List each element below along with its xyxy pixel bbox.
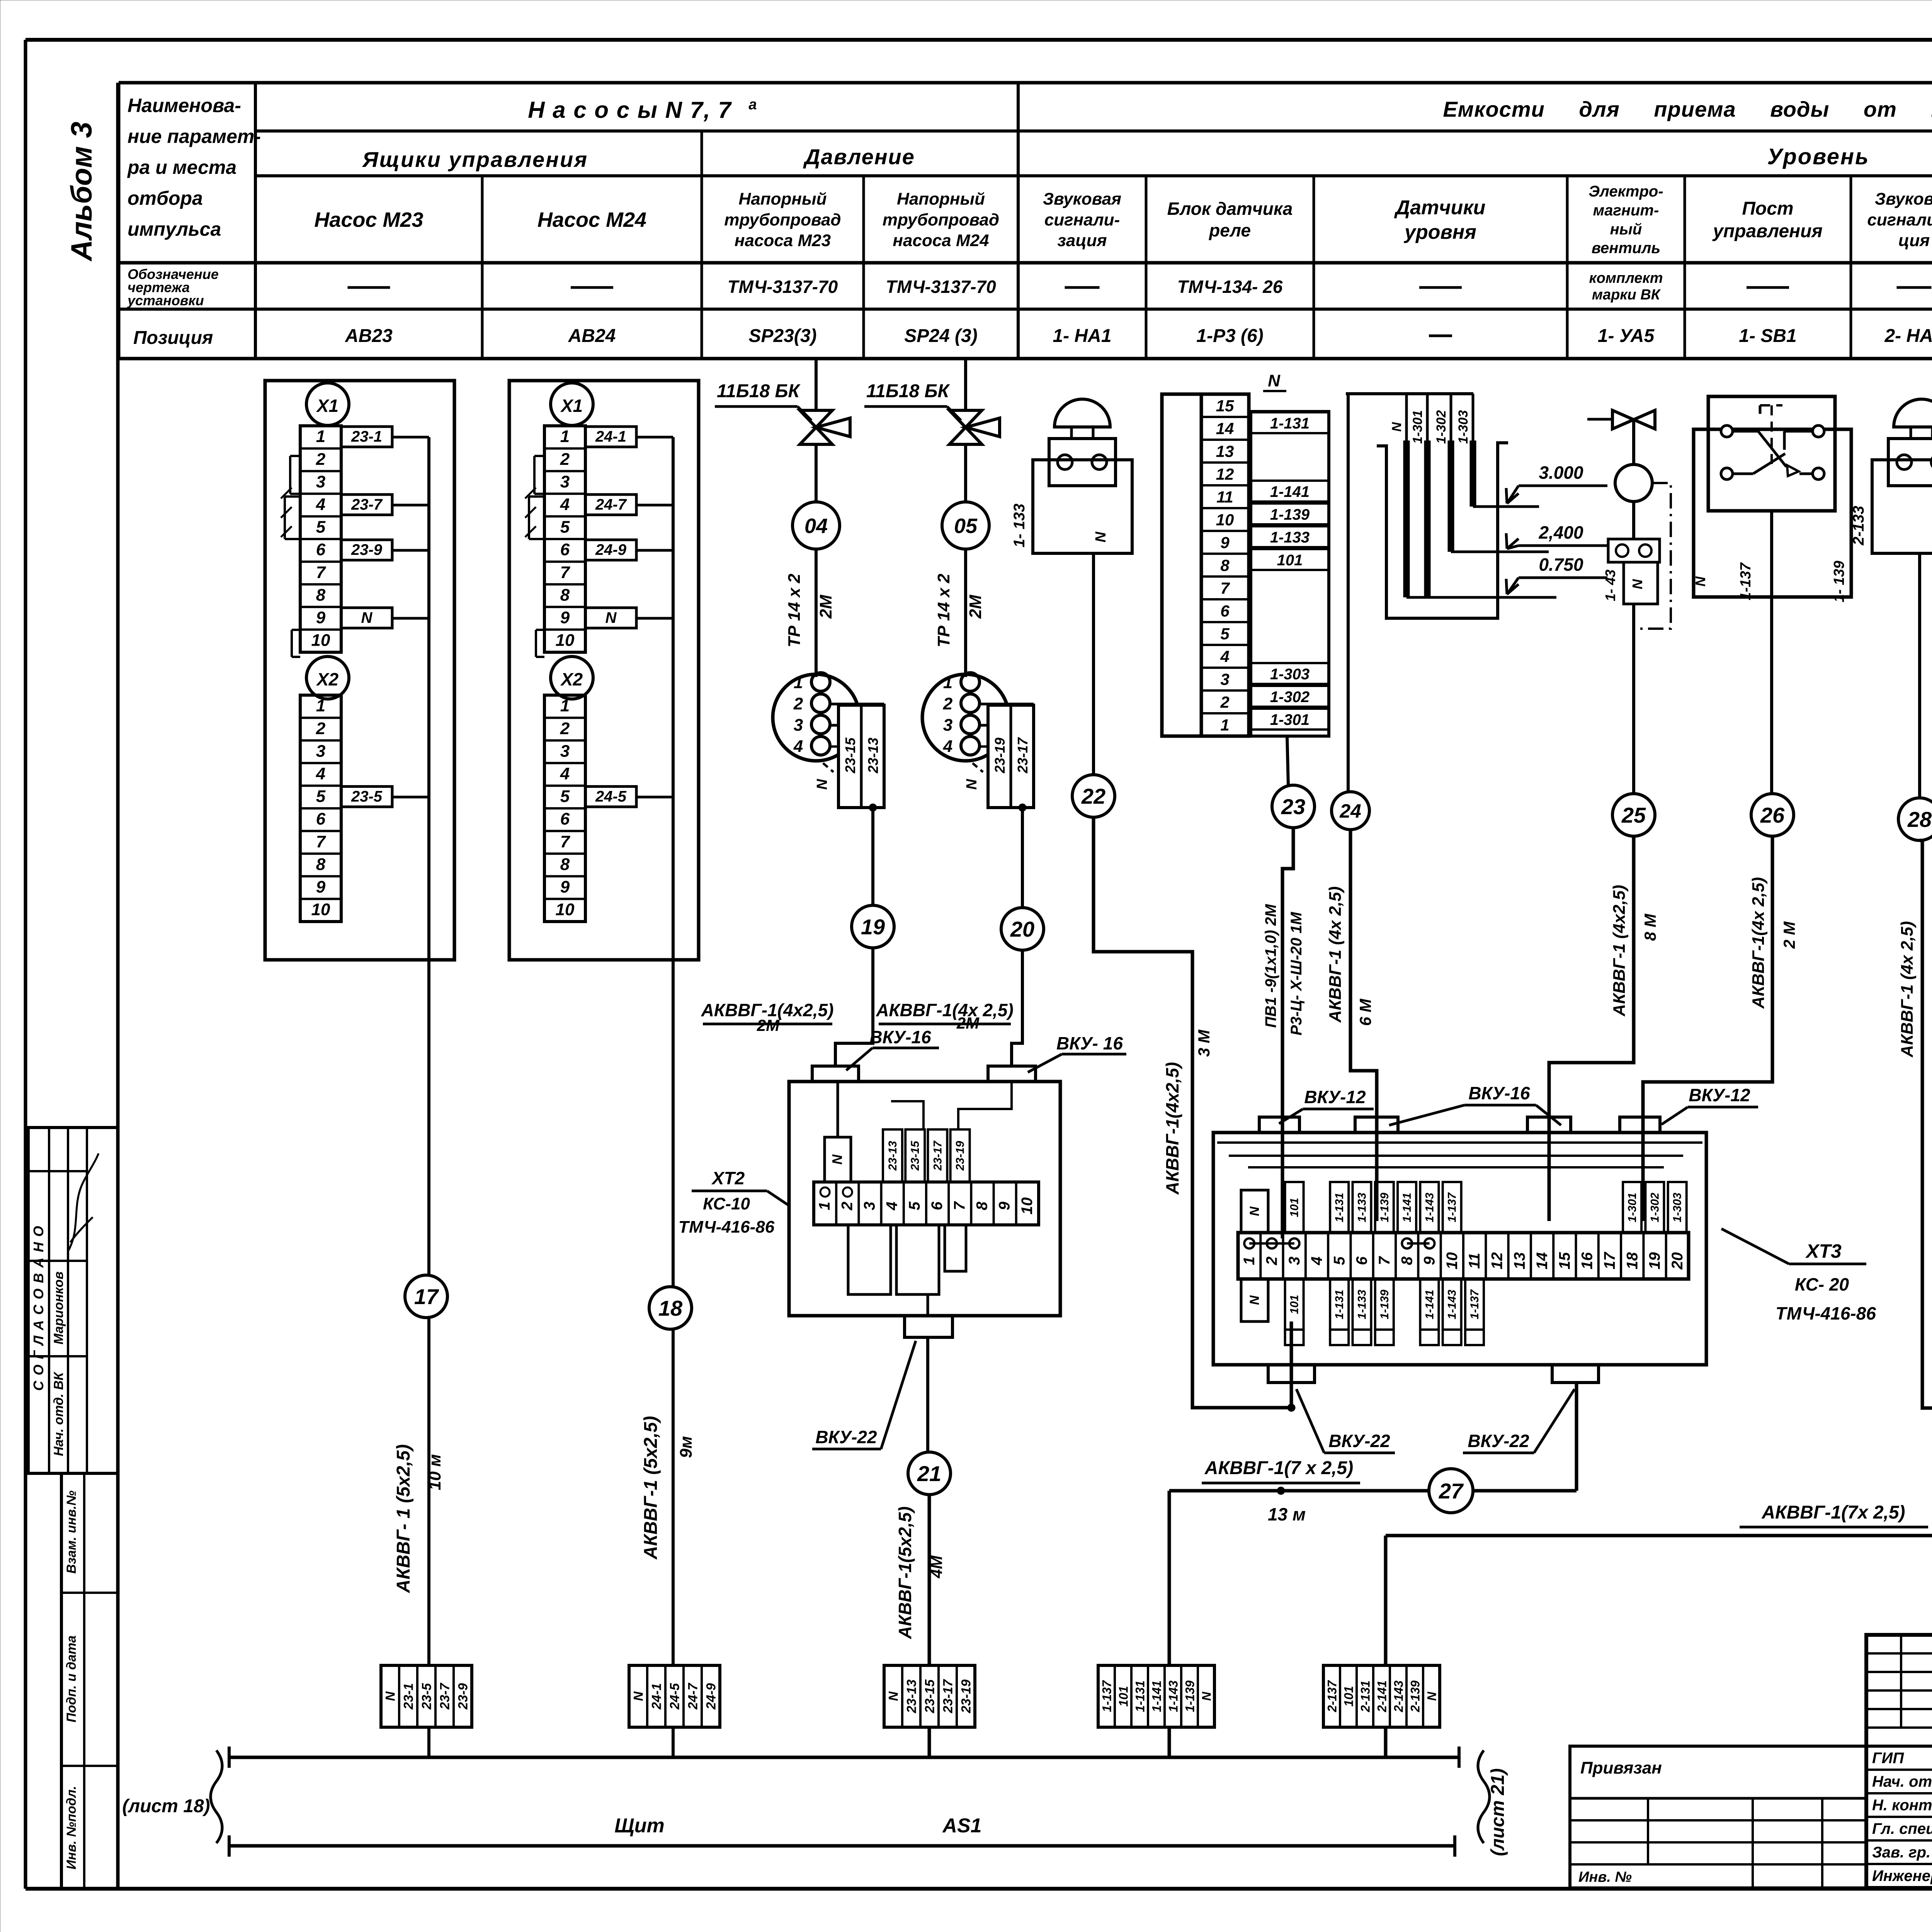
svg-text:5: 5 <box>316 787 326 806</box>
svg-text:101: 101 <box>1342 1686 1356 1706</box>
svg-text:1: 1 <box>1220 716 1229 734</box>
svg-text:23-15: 23-15 <box>923 1679 937 1713</box>
svg-text:1-141: 1-141 <box>1150 1680 1164 1712</box>
svg-text:АКВВГ-1 (4х 2,5): АКВВГ-1 (4х 2,5) <box>1898 921 1917 1058</box>
svg-text:23-13: 23-13 <box>886 1141 899 1171</box>
svg-text:24-5: 24-5 <box>668 1683 682 1710</box>
svg-text:3: 3 <box>316 742 325 760</box>
svg-text:1-143: 1-143 <box>1167 1680 1180 1712</box>
svg-text:АКВВГ-1(7х 2,5): АКВВГ-1(7х 2,5) <box>1761 1502 1905 1523</box>
svg-text:25: 25 <box>1621 803 1646 827</box>
svg-text:24-9: 24-9 <box>595 541 627 558</box>
svg-text:N: N <box>383 1691 398 1701</box>
svg-text:1-131: 1-131 <box>1270 415 1310 432</box>
svg-text:Напорный: Напорный <box>897 190 985 209</box>
svg-text:ция: ция <box>1898 231 1930 250</box>
svg-text:1-131: 1-131 <box>1333 1193 1346 1223</box>
svg-text:1-301: 1-301 <box>1270 711 1310 728</box>
svg-text:5: 5 <box>906 1201 923 1210</box>
svg-text:1-139: 1-139 <box>1270 506 1310 523</box>
svg-text:23-13: 23-13 <box>905 1679 919 1713</box>
svg-text:1-302: 1-302 <box>1648 1192 1661 1222</box>
svg-text:сигнализа-: сигнализа- <box>1867 210 1932 229</box>
svg-text:15: 15 <box>1556 1252 1573 1269</box>
svg-text:1- SB1: 1- SB1 <box>1739 326 1796 346</box>
svg-text:5: 5 <box>560 787 570 806</box>
svg-text:6: 6 <box>560 810 570 828</box>
svg-text:(лист 21): (лист 21) <box>1488 1768 1508 1856</box>
svg-text:1: 1 <box>560 427 570 446</box>
svg-text:9: 9 <box>316 608 326 627</box>
svg-text:9: 9 <box>316 878 326 896</box>
svg-text:9м: 9м <box>677 1436 696 1458</box>
svg-text:3: 3 <box>794 716 803 735</box>
svg-text:17: 17 <box>414 1284 439 1309</box>
svg-text:7: 7 <box>316 832 327 851</box>
svg-text:1- 133: 1- 133 <box>1011 503 1028 547</box>
svg-text:23-19: 23-19 <box>959 1679 974 1713</box>
svg-text:Электро-: Электро- <box>1588 183 1663 200</box>
svg-text:насоса М24: насоса М24 <box>893 231 989 250</box>
svg-text:8: 8 <box>560 855 570 874</box>
svg-text:1-301: 1-301 <box>1626 1193 1639 1223</box>
svg-text:10: 10 <box>311 900 330 919</box>
svg-text:реле: реле <box>1208 220 1251 240</box>
svg-text:X1: X1 <box>316 396 338 416</box>
svg-text:1-303: 1-303 <box>1456 410 1471 444</box>
svg-text:8: 8 <box>1220 556 1230 574</box>
svg-text:3 М: 3 М <box>1929 921 1932 949</box>
svg-text:2М: 2М <box>956 1014 980 1032</box>
svg-text:X2: X2 <box>560 669 583 689</box>
svg-text:0.750: 0.750 <box>1539 554 1583 575</box>
svg-text:магнит-: магнит- <box>1593 202 1659 219</box>
svg-text:ПВ1 -9(1х1,0) 2М: ПВ1 -9(1х1,0) 2М <box>1262 903 1279 1028</box>
svg-text:X1: X1 <box>560 396 583 416</box>
svg-text:4: 4 <box>560 764 570 783</box>
svg-text:5: 5 <box>560 518 570 537</box>
svg-text:2-133: 2-133 <box>1850 506 1867 546</box>
svg-text:АВ23: АВ23 <box>345 326 393 346</box>
svg-text:Блок датчика: Блок датчика <box>1167 199 1293 219</box>
svg-text:КС-10: КС-10 <box>703 1194 750 1213</box>
svg-text:2: 2 <box>316 719 326 738</box>
svg-text:1: 1 <box>560 696 570 715</box>
svg-text:Датчики: Датчики <box>1394 197 1486 219</box>
svg-text:15: 15 <box>1216 396 1234 415</box>
svg-text:1- УА5: 1- УА5 <box>1598 326 1655 346</box>
svg-text:7: 7 <box>951 1201 968 1210</box>
svg-text:1-143: 1-143 <box>1423 1192 1436 1222</box>
svg-text:сигнали-: сигнали- <box>1044 210 1120 229</box>
svg-text:1- 139: 1- 139 <box>1831 561 1847 602</box>
svg-text:19: 19 <box>861 915 885 939</box>
svg-text:11Б18 БК: 11Б18 БК <box>717 381 801 401</box>
svg-text:9: 9 <box>560 878 570 896</box>
svg-text:6: 6 <box>1220 602 1230 620</box>
svg-text:7: 7 <box>1220 579 1230 597</box>
svg-text:ВКУ-12: ВКУ-12 <box>1689 1085 1750 1105</box>
svg-text:13: 13 <box>1216 442 1234 460</box>
svg-text:9: 9 <box>1220 533 1230 551</box>
svg-text:4: 4 <box>560 495 570 514</box>
svg-text:1-302: 1-302 <box>1434 410 1449 444</box>
svg-text:5: 5 <box>316 518 326 537</box>
svg-text:8: 8 <box>560 585 570 604</box>
svg-text:2: 2 <box>560 719 570 738</box>
svg-text:12: 12 <box>1216 465 1234 483</box>
svg-text:6: 6 <box>1354 1256 1371 1265</box>
svg-text:2: 2 <box>316 450 326 469</box>
svg-text:13 м: 13 м <box>1268 1504 1306 1524</box>
svg-text:ВКУ-12: ВКУ-12 <box>1304 1087 1366 1107</box>
svg-text:Звуковая: Звуковая <box>1043 190 1121 209</box>
svg-text:Подп. и дата: Подп. и дата <box>64 1635 79 1722</box>
svg-text:23-1: 23-1 <box>401 1683 416 1710</box>
svg-text:1-133: 1-133 <box>1270 529 1310 546</box>
svg-text:1-131: 1-131 <box>1333 1290 1346 1320</box>
svg-text:N: N <box>1093 531 1109 543</box>
svg-text:05: 05 <box>954 514 978 537</box>
svg-text:10: 10 <box>556 900 575 919</box>
svg-text:Гл. спец.: Гл. спец. <box>1872 1820 1932 1837</box>
svg-text:14: 14 <box>1216 419 1234 437</box>
svg-text:ние парамет-: ние парамет- <box>128 126 261 147</box>
svg-text:16: 16 <box>1579 1252 1596 1269</box>
svg-text:10: 10 <box>1216 510 1234 529</box>
svg-text:3: 3 <box>560 472 570 491</box>
svg-text:1-139: 1-139 <box>1378 1289 1391 1319</box>
svg-text:импульса: импульса <box>128 218 221 240</box>
svg-text:Привязан: Привязан <box>1580 1759 1662 1777</box>
svg-text:Нач. отд.: Нач. отд. <box>1872 1773 1932 1790</box>
svg-text:8: 8 <box>316 585 326 604</box>
svg-text:Р3-Ц- Х-Ш-20 1М: Р3-Ц- Х-Ш-20 1М <box>1288 912 1305 1036</box>
svg-text:АS1: АS1 <box>942 1815 981 1837</box>
svg-text:101: 101 <box>1288 1295 1301 1314</box>
svg-text:X2: X2 <box>316 669 339 689</box>
svg-text:Пост: Пост <box>1742 199 1793 219</box>
svg-text:Звуковая: Звуковая <box>1875 190 1932 209</box>
svg-text:2М: 2М <box>757 1016 780 1034</box>
svg-text:1: 1 <box>794 673 803 692</box>
svg-text:23-7: 23-7 <box>438 1682 452 1710</box>
svg-text:8: 8 <box>316 855 326 874</box>
svg-text:10: 10 <box>556 631 575 650</box>
svg-text:1-301: 1-301 <box>1410 410 1425 444</box>
svg-text:N: N <box>886 1691 901 1701</box>
svg-text:зация: зация <box>1057 231 1107 250</box>
svg-text:7: 7 <box>560 563 571 582</box>
svg-text:Н а с о с ы N 7, 7: Н а с о с ы N 7, 7 <box>528 97 732 123</box>
svg-text:3: 3 <box>1286 1257 1303 1265</box>
svg-text:1-141: 1-141 <box>1423 1290 1436 1320</box>
svg-text:установки: установки <box>127 293 204 308</box>
svg-text:23-19: 23-19 <box>992 738 1008 774</box>
svg-text:23: 23 <box>1281 794 1305 819</box>
svg-text:10: 10 <box>1444 1252 1461 1270</box>
svg-text:N: N <box>1425 1692 1439 1701</box>
svg-text:2- НА1: 2- НА1 <box>1884 326 1932 346</box>
svg-text:4: 4 <box>316 495 325 514</box>
svg-text:18: 18 <box>1624 1252 1641 1269</box>
svg-text:3: 3 <box>316 472 325 491</box>
svg-text:N: N <box>1692 576 1708 587</box>
svg-text:АКВВГ-1(4х 2,5): АКВВГ-1(4х 2,5) <box>876 1000 1014 1020</box>
svg-text:22: 22 <box>1081 784 1105 808</box>
svg-text:АВ24: АВ24 <box>568 326 616 346</box>
svg-text:ТМЧ-416-86: ТМЧ-416-86 <box>1776 1303 1876 1323</box>
svg-text:АКВВГ- 1 (5х2,5): АКВВГ- 1 (5х2,5) <box>393 1444 414 1593</box>
svg-text:10: 10 <box>311 631 330 650</box>
svg-text:1: 1 <box>316 427 325 446</box>
svg-text:Насос М23: Насос М23 <box>314 208 423 231</box>
svg-text:Н. контр.: Н. контр. <box>1872 1797 1932 1814</box>
svg-text:N: N <box>1247 1295 1262 1305</box>
svg-text:24: 24 <box>1339 800 1361 822</box>
svg-text:АКВВГ-1(4х2,5): АКВВГ-1(4х2,5) <box>1162 1062 1182 1195</box>
svg-text:трубопровад: трубопровад <box>883 210 999 229</box>
svg-text:2М: 2М <box>966 594 985 619</box>
svg-text:101: 101 <box>1117 1686 1131 1706</box>
svg-text:Взам. инв.№: Взам. инв.№ <box>64 1490 79 1573</box>
svg-text:9: 9 <box>1421 1256 1438 1265</box>
svg-text:1-Р3 (6): 1-Р3 (6) <box>1196 326 1263 346</box>
svg-text:17: 17 <box>1601 1252 1618 1269</box>
svg-text:отбора: отбора <box>128 187 203 209</box>
svg-text:23-9: 23-9 <box>351 541 383 558</box>
svg-text:23-9: 23-9 <box>456 1683 471 1710</box>
svg-text:Напорный: Напорный <box>739 190 827 209</box>
svg-text:Емкости для приема воды от: Емкости для приема воды от промывки филь… <box>1443 97 1932 121</box>
svg-text:ТМЧ-134- 26: ТМЧ-134- 26 <box>1177 277 1283 297</box>
svg-text:4: 4 <box>316 764 325 783</box>
svg-text:N: N <box>1247 1206 1262 1216</box>
svg-text:1: 1 <box>316 696 325 715</box>
svg-text:19: 19 <box>1646 1252 1663 1269</box>
svg-text:а: а <box>748 97 757 113</box>
svg-text:1-137: 1-137 <box>1738 562 1754 600</box>
svg-text:Уровень: Уровень <box>1767 144 1869 169</box>
svg-text:4: 4 <box>943 737 952 756</box>
svg-text:11: 11 <box>1216 488 1233 506</box>
svg-text:Насос М24: Насос М24 <box>537 208 646 231</box>
svg-text:комплект: комплект <box>1589 270 1663 286</box>
svg-text:24-7: 24-7 <box>686 1682 701 1710</box>
svg-text:N: N <box>1629 579 1645 589</box>
svg-text:3.000: 3.000 <box>1539 463 1583 483</box>
svg-text:2: 2 <box>1220 693 1229 711</box>
svg-text:ТР 14 х 2: ТР 14 х 2 <box>785 573 804 647</box>
svg-text:АКВВГ-1 (4х 2,5): АКВВГ-1 (4х 2,5) <box>1326 886 1345 1023</box>
svg-text:9: 9 <box>996 1201 1013 1210</box>
svg-text:1-133: 1-133 <box>1356 1289 1369 1319</box>
svg-text:23-1: 23-1 <box>351 428 382 445</box>
svg-text:Инв. №подл.: Инв. №подл. <box>64 1786 79 1870</box>
svg-text:SP24 (3): SP24 (3) <box>904 326 977 346</box>
svg-text:насоса М23: насоса М23 <box>735 231 831 250</box>
svg-text:1-133: 1-133 <box>1356 1192 1369 1222</box>
svg-text:1: 1 <box>943 673 952 692</box>
svg-text:2: 2 <box>1263 1257 1280 1265</box>
svg-text:23-7: 23-7 <box>351 496 383 513</box>
svg-text:КС- 20: КС- 20 <box>1795 1274 1849 1294</box>
svg-text:(лист 18): (лист 18) <box>122 1796 210 1816</box>
svg-text:N: N <box>1389 422 1404 432</box>
svg-text:9: 9 <box>560 608 570 627</box>
svg-text:6 М: 6 М <box>1356 998 1374 1026</box>
svg-text:вентиль: вентиль <box>1592 240 1660 257</box>
svg-text:АКВВГ-1(5х2,5): АКВВГ-1(5х2,5) <box>895 1507 915 1639</box>
svg-text:6: 6 <box>929 1201 946 1210</box>
svg-text:1-137: 1-137 <box>1468 1289 1481 1319</box>
svg-text:2-131: 2-131 <box>1359 1680 1372 1713</box>
svg-text:20: 20 <box>1669 1252 1686 1270</box>
svg-text:С О Г Л А С О В А Н О: С О Г Л А С О В А Н О <box>31 1225 46 1391</box>
svg-text:23-19: 23-19 <box>954 1141 967 1171</box>
svg-text:ный: ный <box>1610 221 1642 238</box>
svg-text:Давление: Давление <box>803 145 915 169</box>
svg-text:ВКУ-22: ВКУ-22 <box>1468 1431 1529 1451</box>
svg-text:13: 13 <box>1511 1252 1528 1270</box>
svg-text:2-137: 2-137 <box>1325 1680 1339 1713</box>
svg-text:8: 8 <box>1398 1256 1415 1265</box>
svg-text:N: N <box>814 779 830 790</box>
svg-text:1-139: 1-139 <box>1183 1680 1197 1712</box>
svg-text:27: 27 <box>1439 1479 1464 1503</box>
svg-text:5: 5 <box>1331 1256 1348 1265</box>
svg-text:ВКУ-22: ВКУ-22 <box>815 1427 877 1447</box>
svg-text:N: N <box>605 609 617 626</box>
svg-text:28: 28 <box>1907 807 1932 832</box>
svg-text:18: 18 <box>658 1296 683 1320</box>
svg-text:Зав. гр.: Зав. гр. <box>1872 1844 1930 1861</box>
svg-text:8: 8 <box>974 1201 991 1210</box>
svg-text:4М: 4М <box>927 1555 946 1578</box>
svg-text:Позиция: Позиция <box>133 328 213 348</box>
svg-text:3: 3 <box>1220 670 1229 688</box>
svg-text:1-131: 1-131 <box>1133 1680 1147 1712</box>
svg-text:АКВВГ-1 (5х2,5): АКВВГ-1 (5х2,5) <box>641 1416 661 1560</box>
svg-text:23-15: 23-15 <box>842 737 858 774</box>
svg-text:ТМЧ-416-86: ТМЧ-416-86 <box>679 1218 775 1236</box>
svg-text:1-143: 1-143 <box>1446 1289 1459 1319</box>
svg-text:24-1: 24-1 <box>650 1683 664 1710</box>
svg-text:уровня: уровня <box>1403 221 1476 243</box>
svg-text:SP23(3): SP23(3) <box>748 326 816 346</box>
svg-text:10 м: 10 м <box>425 1454 444 1490</box>
svg-text:N: N <box>631 1691 646 1701</box>
svg-text:1: 1 <box>816 1202 833 1210</box>
svg-text:7: 7 <box>560 832 571 851</box>
svg-text:23-5: 23-5 <box>420 1683 434 1710</box>
svg-text:ВКУ-16: ВКУ-16 <box>869 1027 931 1047</box>
svg-text:ХТ2: ХТ2 <box>711 1168 745 1188</box>
svg-text:23-17: 23-17 <box>941 1679 956 1713</box>
svg-text:ГИП: ГИП <box>1872 1750 1904 1767</box>
svg-text:трубопровад: трубопровад <box>724 210 841 229</box>
svg-text:24-5: 24-5 <box>595 788 627 805</box>
svg-text:5: 5 <box>1220 624 1230 643</box>
svg-text:1-139: 1-139 <box>1378 1192 1391 1222</box>
svg-text:23-17: 23-17 <box>1015 737 1031 774</box>
svg-text:2: 2 <box>943 694 953 713</box>
svg-text:10: 10 <box>1019 1197 1036 1215</box>
svg-text:101: 101 <box>1288 1198 1301 1217</box>
svg-text:ХТ3: ХТ3 <box>1805 1240 1842 1262</box>
svg-text:11: 11 <box>1466 1253 1483 1269</box>
svg-text:марки ВК: марки ВК <box>1592 287 1661 303</box>
svg-text:1-302: 1-302 <box>1270 689 1310 706</box>
svg-text:2-143: 2-143 <box>1392 1680 1406 1713</box>
svg-text:АКВВГ-1 (4х2,5): АКВВГ-1 (4х2,5) <box>1610 885 1629 1017</box>
svg-text:4: 4 <box>884 1202 901 1211</box>
svg-text:N: N <box>1200 1692 1214 1701</box>
svg-text:2 М: 2 М <box>1780 921 1798 949</box>
svg-text:1- НА1: 1- НА1 <box>1053 326 1111 346</box>
svg-text:24-1: 24-1 <box>595 428 626 445</box>
svg-text:20: 20 <box>1010 917 1034 941</box>
svg-text:2: 2 <box>793 694 803 713</box>
svg-text:21: 21 <box>917 1461 941 1486</box>
svg-text:24-7: 24-7 <box>595 496 627 513</box>
svg-text:24-9: 24-9 <box>704 1683 719 1710</box>
svg-text:04: 04 <box>804 514 828 537</box>
svg-text:2: 2 <box>560 450 570 469</box>
svg-text:7: 7 <box>316 563 327 582</box>
svg-text:3: 3 <box>560 742 570 760</box>
svg-text:Альбом 3: Альбом 3 <box>65 122 98 262</box>
svg-text:3 М: 3 М <box>1195 1029 1213 1057</box>
svg-text:4: 4 <box>793 737 803 756</box>
svg-text:ТР 14 х 2: ТР 14 х 2 <box>934 573 953 647</box>
svg-text:101: 101 <box>1277 552 1303 569</box>
svg-text:23-5: 23-5 <box>351 788 383 805</box>
svg-text:управления: управления <box>1712 221 1823 241</box>
svg-text:1-137: 1-137 <box>1100 1680 1114 1712</box>
svg-text:1- 43: 1- 43 <box>1602 570 1618 601</box>
svg-text:2-141: 2-141 <box>1375 1680 1389 1713</box>
svg-text:11Б18 БК: 11Б18 БК <box>866 381 951 401</box>
svg-text:23-15: 23-15 <box>909 1140 922 1171</box>
svg-text:ТМЧ-3137-70: ТМЧ-3137-70 <box>886 277 996 297</box>
svg-text:12: 12 <box>1488 1252 1505 1270</box>
svg-text:23-17: 23-17 <box>931 1140 944 1171</box>
svg-text:Нач. отд. ВК: Нач. отд. ВК <box>51 1372 66 1456</box>
svg-text:АКВВГ-1(7 х 2,5): АКВВГ-1(7 х 2,5) <box>1204 1458 1353 1478</box>
svg-text:ра и места: ра и места <box>127 156 236 178</box>
svg-text:N: N <box>829 1154 845 1165</box>
svg-text:26: 26 <box>1760 803 1785 827</box>
svg-text:2,400: 2,400 <box>1538 522 1583 543</box>
svg-text:N: N <box>361 609 373 626</box>
svg-text:Ящики управления: Ящики управления <box>362 147 588 172</box>
svg-text:2: 2 <box>838 1202 855 1211</box>
svg-text:Щит: Щит <box>614 1815 664 1837</box>
svg-text:ВКУ-16: ВКУ-16 <box>1468 1083 1530 1103</box>
svg-text:8 М: 8 М <box>1641 913 1659 941</box>
svg-text:4: 4 <box>1220 647 1229 665</box>
svg-text:Инженер: Инженер <box>1872 1867 1932 1884</box>
svg-text:23-13: 23-13 <box>865 738 881 774</box>
svg-text:Наименова-: Наименова- <box>128 95 241 116</box>
svg-text:3: 3 <box>943 716 952 735</box>
svg-text:ТМЧ-3137-70: ТМЧ-3137-70 <box>728 277 838 297</box>
svg-text:ВКУ- 16: ВКУ- 16 <box>1056 1033 1123 1053</box>
svg-text:Марионков: Марионков <box>51 1271 66 1344</box>
svg-text:ВКУ-22: ВКУ-22 <box>1328 1431 1390 1451</box>
svg-text:4: 4 <box>1308 1257 1325 1265</box>
